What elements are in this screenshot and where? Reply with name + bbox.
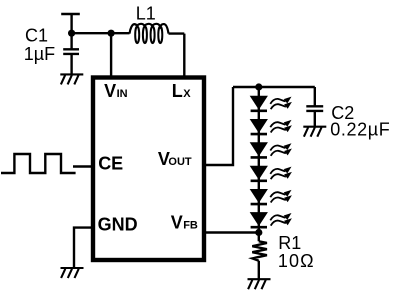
svg-text:V: V bbox=[104, 81, 116, 101]
svg-text:CE: CE bbox=[98, 154, 123, 174]
svg-text:L: L bbox=[172, 81, 183, 101]
svg-text:1µF: 1µF bbox=[24, 44, 55, 64]
svg-text:0.22µF: 0.22µF bbox=[330, 120, 390, 140]
svg-text:C1: C1 bbox=[25, 26, 48, 46]
svg-text:R1: R1 bbox=[278, 233, 301, 253]
svg-text:X: X bbox=[183, 88, 191, 100]
svg-text:FB: FB bbox=[183, 220, 198, 232]
svg-text:V: V bbox=[171, 212, 183, 232]
svg-text:OUT: OUT bbox=[168, 156, 192, 168]
svg-text:GND: GND bbox=[98, 215, 138, 235]
svg-text:IN: IN bbox=[117, 88, 128, 100]
svg-text:L1: L1 bbox=[136, 3, 156, 23]
svg-text:10Ω: 10Ω bbox=[278, 251, 315, 271]
